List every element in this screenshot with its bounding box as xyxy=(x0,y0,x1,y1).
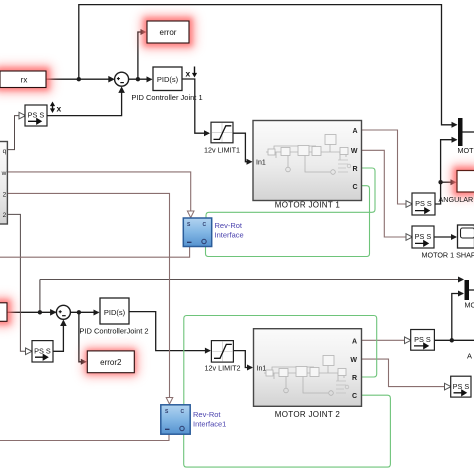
svg-text:MOTOR JOINT 2: MOTOR JOINT 2 xyxy=(275,410,341,419)
wire green C2 loop Rev-Rot Interface1 bottom right to motor2 C xyxy=(184,395,391,467)
block 12v LIMIT1 xyxy=(204,122,240,154)
block PS-S3 xyxy=(411,330,435,351)
svg-text:W: W xyxy=(351,148,358,155)
wire motor2 A output to PS-S3 xyxy=(362,339,406,341)
wire rx to sum1 xyxy=(46,78,114,80)
svg-text:Rev-Rot: Rev-Rot xyxy=(215,221,243,230)
svg-text:PS S: PS S xyxy=(414,335,431,344)
block error xyxy=(147,21,189,43)
open arrow into PS-S4 xyxy=(445,383,452,390)
wire rx2 to sum2 xyxy=(7,311,56,313)
arrow into mux1 input2 xyxy=(452,137,458,143)
arrow into In1 joint1 xyxy=(247,159,253,165)
wire green R1 loop motor1 R to Rev-Rot top right xyxy=(206,168,375,218)
open arrow into PS-S J2 xyxy=(26,348,33,355)
open arrow into PS-S2 xyxy=(406,234,413,241)
svg-text:PID ControllerJoint 2: PID ControllerJoint 2 xyxy=(79,327,148,336)
block PS-S2 xyxy=(412,226,434,248)
svg-text:Interface1: Interface1 xyxy=(193,420,226,429)
svg-text:x: x xyxy=(186,69,191,79)
svg-text:C: C xyxy=(352,393,357,400)
arrow into ANGULAR box xyxy=(451,179,457,185)
circuit sketch inside MOTOR JOINT 2 xyxy=(264,356,349,396)
svg-text:MOTOR JOINT 1: MOTOR JOINT 1 xyxy=(275,201,341,210)
arrow into error xyxy=(141,29,147,35)
arrow into In1 joint2 xyxy=(247,365,253,371)
circuit sketch inside MOTOR JOINT 1 xyxy=(266,135,351,175)
svg-text:12v LIMIT2: 12v LIMIT2 xyxy=(205,364,241,373)
wire PS-S1 to mux1 input2 and ANGULAR box xyxy=(435,140,457,204)
block Rev-Rot Interface1 xyxy=(161,405,227,434)
open arrow down into Rev-Rot Interface S joint1 xyxy=(187,211,194,218)
wire sum2 to PID2 with error2 branch xyxy=(70,311,98,313)
svg-text:MOTOR 1 SHAF: MOTOR 1 SHAF xyxy=(422,250,474,259)
wire w2 from robot block down to Rev-Rot Interface1 S input xyxy=(7,193,169,397)
svg-text:C: C xyxy=(203,222,207,228)
svg-text:W: W xyxy=(350,357,357,364)
block 12v LIMIT2 xyxy=(205,341,241,373)
arrow into sum2 bottom xyxy=(60,320,67,327)
block MOTOR JOINT 1 xyxy=(253,121,362,210)
open arrow into PS-S1 xyxy=(406,201,413,208)
wire green C1 loop Rev-Rot bottom right to motor1 C xyxy=(206,186,370,257)
svg-text:MOT: MOT xyxy=(458,146,474,155)
svg-text:w: w xyxy=(1,170,7,177)
glow error2 xyxy=(82,346,139,378)
block rx2 (cut at left edge) xyxy=(0,303,7,322)
block Rev-Rot Interface xyxy=(183,218,243,247)
wire motor1 W output to PS-S2 xyxy=(362,150,407,237)
svg-text:C: C xyxy=(181,409,185,415)
wire error2 branch down xyxy=(79,312,86,362)
block rx xyxy=(0,71,46,88)
arrow into sum1 xyxy=(108,76,115,83)
wire Rev-Rot Interface1 bottom-left feedback to left edge xyxy=(0,434,169,440)
open arrow into PS-S3 xyxy=(405,337,412,344)
wire PID1 to 12v LIMIT1 xyxy=(182,79,209,133)
wire q2 from robot block down to PS-S J2 xyxy=(7,214,26,351)
block PS-S1 xyxy=(412,193,435,215)
block PS-S J2 xyxy=(32,341,53,362)
block MOTOR JOINT 2 xyxy=(254,329,362,420)
svg-text:PS S: PS S xyxy=(28,110,45,119)
block PID1 xyxy=(131,67,202,102)
wire rx junction riser to top feed line to mux1 xyxy=(79,5,457,125)
wire node to ANGULAR SHAFT1 box xyxy=(441,181,456,183)
svg-text:▬: ▬ xyxy=(187,239,192,244)
wire green R2 loop motor2 R to Rev-Rot Interface1 top right xyxy=(184,316,377,405)
arrow into sum1 bottom xyxy=(118,86,125,93)
svg-text:A: A xyxy=(352,338,357,345)
wire motor1 A output to PS-S1 xyxy=(362,130,407,204)
svg-text:PID Controller Joint 1: PID Controller Joint 1 xyxy=(131,93,202,102)
svg-text:A: A xyxy=(352,128,357,135)
svg-text:error2: error2 xyxy=(100,358,122,367)
wire PID2 to 12v LIMIT2 xyxy=(129,312,210,351)
svg-text:PS S: PS S xyxy=(415,232,432,241)
glow rx2 xyxy=(0,296,14,328)
svg-text:rx: rx xyxy=(21,76,28,85)
block robot arm (left edge, cut) xyxy=(0,142,7,225)
arrow into scope1 xyxy=(451,234,457,240)
node angular2 branch xyxy=(450,338,454,342)
svg-text:Interface: Interface xyxy=(215,231,244,240)
arrow into LIMIT1 xyxy=(204,130,210,136)
arrow into LIMIT2 xyxy=(205,348,211,354)
svg-text:Rev-Rot: Rev-Rot xyxy=(193,410,221,419)
sum junction 1 xyxy=(115,72,129,86)
wire PS-S J2 to sum2 bottom xyxy=(53,321,63,351)
open arrow into PS-S J0 xyxy=(19,112,26,119)
open arrow down into Rev-Rot Interface1 S joint2 xyxy=(166,398,173,405)
block scope MOTOR 1 SHAFT xyxy=(422,225,474,259)
wire LIMIT1 to MOTOR JOINT 1 In1 xyxy=(233,133,252,162)
wire error branch riser xyxy=(138,32,146,79)
svg-text:PID(s): PID(s) xyxy=(104,308,126,317)
node angular1 branch xyxy=(438,180,442,184)
block error2 xyxy=(87,351,134,373)
svg-text:PS S: PS S xyxy=(415,199,432,208)
arrow into PID1 xyxy=(147,76,153,82)
arrow into error2 xyxy=(81,359,87,365)
svg-text:2: 2 xyxy=(3,212,7,219)
svg-text:▬: ▬ xyxy=(165,426,170,431)
wire PS-S2 to scope MOTOR 1 SHAFT xyxy=(434,236,456,238)
arrow into PID2 xyxy=(94,310,100,316)
svg-text:12v LIMIT1: 12v LIMIT1 xyxy=(204,145,240,154)
wire motor2 W output to PS-S4 xyxy=(362,359,446,387)
wire w1 from robot block to Rev-Rot S input xyxy=(7,172,190,211)
svg-text:A: A xyxy=(467,352,472,361)
arrow into sum2 xyxy=(50,309,57,316)
wire node to right edge (ANGULAR SHAFT2 offscreen) xyxy=(452,339,474,341)
wire mux1 output xyxy=(463,131,474,133)
svg-text:PS S: PS S xyxy=(453,382,470,391)
annotation updown-x near PS-S J0 xyxy=(50,102,62,114)
svg-text:MO: MO xyxy=(465,300,474,309)
svg-text:R: R xyxy=(352,375,357,382)
svg-text:C: C xyxy=(352,184,357,191)
arrow into mux2 input1 xyxy=(458,277,464,283)
svg-text:In1: In1 xyxy=(257,365,267,372)
wire PS-S J0 to sum1 bottom xyxy=(47,88,122,116)
svg-text:R: R xyxy=(352,166,357,173)
svg-text:x: x xyxy=(57,104,62,114)
wire Rev-Rot bottom-left feedback to robot block xyxy=(0,247,190,258)
mux2 xyxy=(465,280,470,300)
glow rx xyxy=(0,64,53,94)
glow error xyxy=(140,14,196,50)
svg-text:PID(s): PID(s) xyxy=(157,75,179,84)
svg-text:q: q xyxy=(3,148,7,155)
block PS-S4 xyxy=(451,376,471,397)
node error branch xyxy=(136,77,140,81)
wire rx2 junction riser long line to mux2 input1 xyxy=(39,280,41,313)
wire sum1 to PID1 with error branch xyxy=(129,78,152,80)
arrow into mux1 input1 xyxy=(452,122,458,128)
wire q1 from robot block to PS-S J0 xyxy=(7,116,19,150)
block PID2 xyxy=(79,298,148,336)
wire LIMIT2 to MOTOR JOINT 2 In1 xyxy=(233,351,252,368)
sum junction 2 xyxy=(56,305,70,319)
wire PS-S3 node to mux2 input2 xyxy=(434,294,463,341)
block PS-S J0 xyxy=(25,105,47,126)
glow ANGULAR SHAFT1 xyxy=(450,164,474,200)
svg-text:In1: In1 xyxy=(256,160,266,167)
node rx branch xyxy=(77,77,81,81)
node error2 branch xyxy=(77,310,81,314)
annotation x-down near PID1 output xyxy=(186,67,198,79)
svg-text:2: 2 xyxy=(3,191,7,198)
wire mux2 output xyxy=(469,289,474,291)
arrow into mux2 input2 xyxy=(458,291,464,297)
mux1 xyxy=(458,118,463,146)
block ANGULAR SHAFT1 scope xyxy=(439,171,474,205)
svg-text:PS S: PS S xyxy=(34,346,51,355)
svg-text:ANGULAR S: ANGULAR S xyxy=(439,195,474,204)
svg-text:error: error xyxy=(160,28,177,37)
node rx2 branch xyxy=(38,310,42,314)
